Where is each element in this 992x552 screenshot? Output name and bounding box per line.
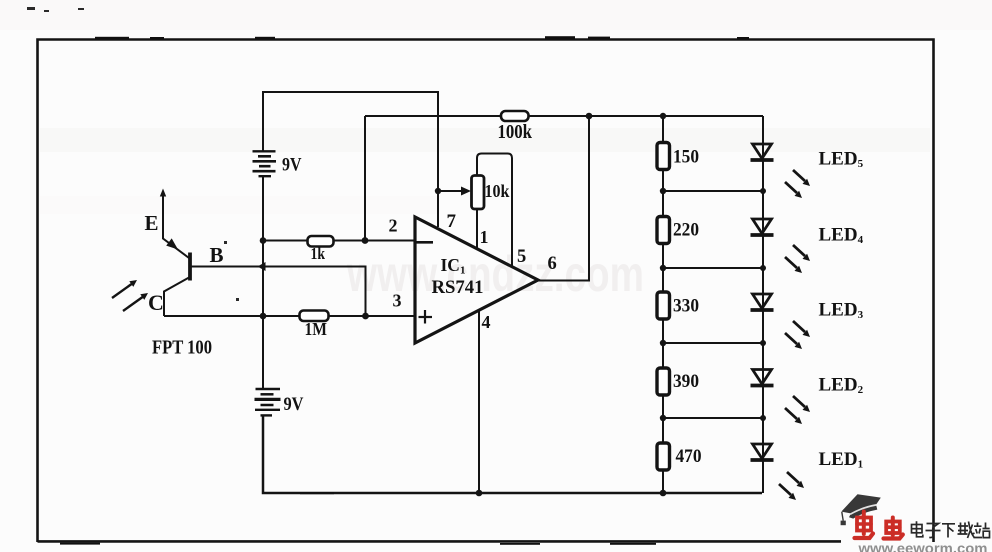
svg-text:10k: 10k: [485, 181, 510, 201]
wire feedback drop to pin 2 node: [364, 116, 366, 241]
potentiometer 10k: [472, 176, 485, 210]
wire 10k top loop to pin 5: [477, 154, 512, 268]
svg-text:4: 4: [482, 312, 491, 332]
wire rung 1: [663, 190, 763, 192]
resistor 470: [657, 443, 670, 470]
svg-text:390: 390: [673, 372, 699, 392]
svg-text:2: 2: [389, 216, 398, 236]
wire collector / 1M line to pin 3: [164, 315, 416, 317]
LED4 emission arrows: [785, 245, 810, 273]
resistor 100k: [501, 111, 529, 121]
LED1: [751, 444, 774, 460]
scan specks top left: [27, 7, 239, 301]
LED3: [751, 294, 774, 310]
LED3 emission arrows: [785, 321, 810, 349]
svg-text:330: 330: [673, 297, 699, 317]
wire base B to pin 3 node: [191, 267, 366, 317]
svg-text:www.cndzz.com: www.cndzz.com: [346, 246, 644, 302]
svg-text:E: E: [145, 211, 159, 235]
svg-text:FPT 100: FPT 100: [152, 337, 212, 359]
svg-text:LED3: LED3: [819, 300, 864, 322]
wire bottom bus: [263, 415, 762, 493]
svg-text:6: 6: [548, 254, 557, 274]
wire top rail feedback/output: [365, 115, 763, 117]
LED4: [751, 219, 774, 235]
logo chongchong character 2: [884, 518, 903, 539]
light arrows into FPT100: [112, 280, 148, 311]
LED5 emission arrows: [785, 170, 810, 198]
svg-text:B: B: [210, 243, 224, 267]
wire 1k line to pin 2: [263, 240, 416, 242]
svg-text:9V: 9V: [282, 155, 302, 176]
wire LED rail: [762, 116, 764, 493]
resistor 1k: [308, 236, 334, 247]
battery B2 9V bottom: [255, 389, 281, 415]
svg-text:150: 150: [673, 148, 699, 168]
svg-text:9V: 9V: [284, 394, 304, 415]
phototransistor Q1 FPT100: [160, 189, 190, 317]
op-amp IC1 RS741 triangle: [415, 217, 538, 343]
scan dashes on borders: [60, 36, 749, 545]
wire op-amp pin 4 to bottom bus: [478, 311, 480, 494]
resistor 150: [657, 143, 670, 170]
svg-text:www.eeworm.com: www.eeworm.com: [857, 540, 987, 552]
resistor 220: [657, 217, 670, 244]
wire left vertical rail: [262, 176, 264, 389]
wire op-amp output pin 6: [538, 116, 589, 281]
op-amp non-inverting plus sign: [419, 310, 433, 324]
wire 10k bottom to pin 1: [476, 209, 478, 250]
LED2: [751, 370, 774, 386]
logo graduation cap: [841, 494, 881, 525]
op-amp inverting input tick: [416, 241, 433, 244]
svg-text:220: 220: [673, 221, 699, 241]
svg-text:1M: 1M: [305, 319, 328, 339]
svg-text:5: 5: [517, 247, 526, 267]
wire rung 3: [663, 342, 763, 344]
svg-text:1k: 1k: [311, 244, 326, 263]
svg-text:3: 3: [393, 291, 402, 311]
svg-text:100k: 100k: [498, 121, 533, 143]
svg-text:7: 7: [447, 211, 457, 232]
resistor 390: [657, 368, 670, 395]
wire rung 2: [663, 267, 763, 269]
LED2 emission arrows: [785, 396, 810, 424]
logo chongchong character 1: [855, 512, 874, 539]
LED1 emission arrows: [779, 472, 804, 500]
svg-text:470: 470: [676, 447, 702, 467]
svg-text:1: 1: [480, 227, 489, 247]
svg-text:RS741: RS741: [432, 277, 484, 298]
battery B1 9V top: [253, 151, 277, 176]
svg-text:LED1: LED1: [819, 449, 864, 471]
svg-text:C: C: [148, 290, 164, 315]
LED5: [751, 144, 774, 160]
wire battery B1 positive to op-amp pin 7: [263, 92, 438, 227]
wire 10k wiper arrow: [438, 187, 471, 196]
svg-text:LED4: LED4: [819, 225, 864, 247]
wire rung 4: [663, 417, 763, 419]
svg-text:LED2: LED2: [819, 375, 864, 397]
resistor 330: [657, 292, 670, 319]
resistor 1M: [300, 311, 329, 322]
svg-text:LED5: LED5: [819, 149, 864, 171]
logo text dianzi xiazai zhan: [912, 521, 990, 538]
wire ladder left rail: [662, 116, 664, 493]
junction kink at base B on rail: [258, 262, 266, 271]
